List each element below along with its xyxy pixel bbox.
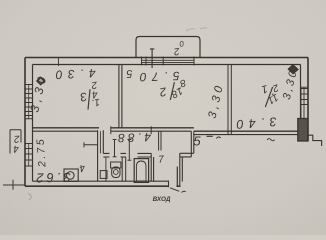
wire corridor wall (bottom of rooms 3/2) [33, 127, 194, 129]
svg-text:5.70: 5.70 [134, 69, 180, 85]
vent top-right [288, 65, 298, 74]
vestibule jog wall [180, 153, 194, 157]
svg-text:4.30: 4.30 [50, 66, 96, 82]
window glazing midline room 3 [28, 85, 30, 119]
kitchen door leaf [84, 142, 98, 147]
partition room3|room2 [119, 65, 122, 128]
san-unit top wall [103, 153, 151, 157]
room 3 fraction bar [88, 89, 90, 109]
vestibule right wall upper [191, 131, 194, 157]
svg-text:4.88: 4.88 [115, 130, 152, 145]
room 2 fraction bar [170, 82, 174, 100]
window glazing midline kitchen [28, 144, 30, 167]
squiggle near 5 [216, 137, 220, 139]
wall pier bottom-right [298, 119, 308, 142]
vestibule left partition [159, 131, 161, 150]
entrance door jambs [168, 181, 170, 188]
wire bottom wall room1 [194, 130, 298, 132]
jamb tick bath-right [150, 126, 152, 134]
partition room2|room1 [228, 65, 231, 135]
bath door leaf [128, 140, 132, 161]
svg-text:3.62: 3.62 [33, 170, 71, 186]
balcony [136, 37, 200, 58]
svg-text:5: 5 [193, 134, 201, 149]
window W3 left (room 3) [25, 85, 33, 119]
bath right wall [151, 153, 153, 181]
stove [64, 169, 78, 181]
faint curve bottom-left [28, 194, 31, 201]
toilet door leaf [113, 140, 117, 157]
window W4 left (kitchen) [25, 144, 33, 167]
squiggle on room1 wall [267, 139, 275, 141]
wire left inner wall [32, 65, 34, 182]
window WB balcony (room 2) [142, 57, 195, 66]
svg-text:ВХОД: ВХОД [153, 196, 171, 203]
duct square kitchen wall [100, 171, 107, 179]
toilet left wall face [105, 157, 107, 181]
wire top inner wall [33, 64, 301, 66]
entrance door leaf [176, 167, 178, 187]
dash annotation right of 5 [207, 135, 213, 137]
wire right outer wall [307, 58, 309, 142]
entrance swing outside [170, 188, 186, 193]
window W1 right (room 1) [301, 87, 309, 120]
dim tick on top wall [58, 58, 60, 67]
wire section tick bottom-left [3, 180, 25, 190]
partition toilet|bath [122, 157, 126, 181]
balcony door leaf [150, 49, 154, 69]
kitchen right wall [98, 130, 104, 181]
wire section stub right [308, 135, 322, 146]
wire top outer wall [25, 57, 308, 59]
toilet cistern [111, 162, 121, 168]
svg-text:2.75: 2.75 [34, 137, 48, 169]
wire left outer wall [24, 58, 26, 187]
wire right inner wall [300, 65, 302, 119]
vestibule right wall lower [180, 153, 183, 186]
room 1 fraction bar [265, 87, 272, 107]
jamb tick toilet-left [110, 126, 112, 134]
bathtub [134, 159, 148, 183]
faint smudges top [186, 28, 207, 31]
wire bottom outer wall [25, 185, 181, 187]
bracket outside left [10, 130, 21, 154]
vent top-left [37, 77, 44, 84]
toilet bowl [112, 167, 120, 178]
